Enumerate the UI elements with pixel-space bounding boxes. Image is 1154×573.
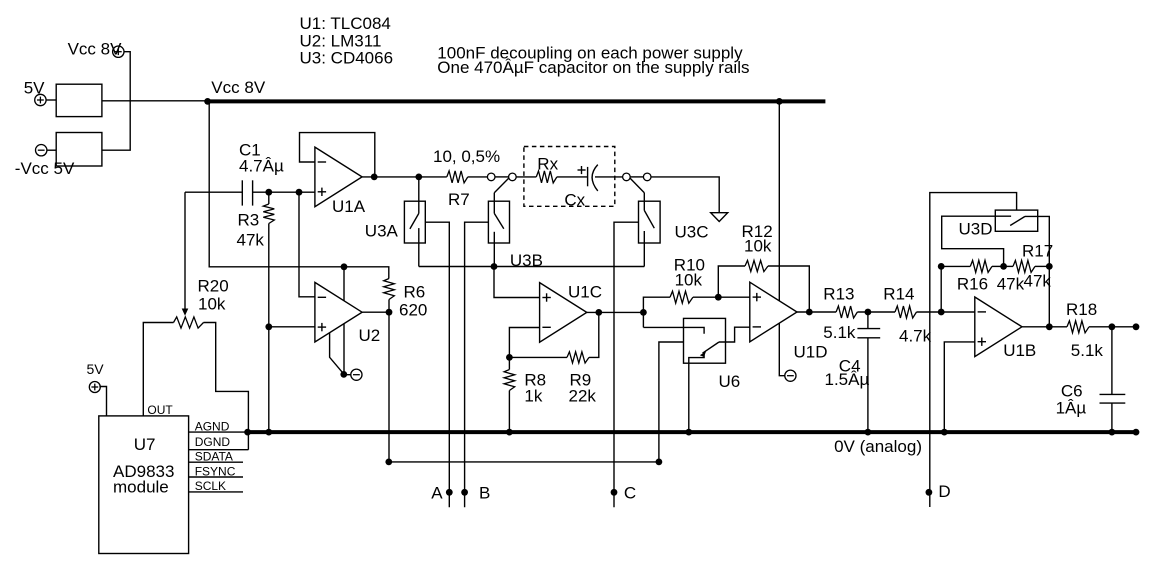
svg-text:module: module [113,478,169,497]
wire R13 to C4 [857,311,895,313]
svg-text:R3: R3 [238,211,260,230]
wire U1D output [797,311,836,313]
wire U1C+ input [494,267,540,298]
node U1B out [1046,323,1053,330]
wire [102,100,208,102]
node rail-left junction [204,98,211,105]
power label 5V (U7) [87,361,105,377]
svg-text:Vcc 8V: Vcc 8V [211,78,266,97]
wire R8 bottom [508,391,510,433]
wire R16 vertical [940,266,942,312]
analog switch U6 arm [700,342,719,357]
label R8 [524,371,546,390]
label C4 [839,357,861,376]
label R7 [448,190,470,209]
analog switch U3B symbol [494,193,504,267]
analog switch U3A symbol [410,177,419,267]
wire R9 right [589,312,599,357]
wire 5V to U7 [99,387,106,416]
svg-text:R18: R18 [1066,300,1097,319]
svg-text:10k: 10k [744,237,772,256]
wire R14 to U1B- [917,311,975,313]
label U3D [959,220,993,239]
label R14 value [899,327,932,346]
wire bus to U6 control [659,342,684,462]
wire Vcc to U2/R6 [209,101,389,278]
node R16 drop [938,309,945,316]
node U1A output [371,174,378,181]
analog switch U6 box [684,318,726,363]
svg-text:10, 0,5%: 10, 0,5% [433,147,500,166]
switch contact [623,173,631,181]
power symbol - (-Vcc) [36,145,47,156]
svg-text:U1A: U1A [332,197,366,216]
svg-text:R13: R13 [823,285,854,304]
svg-text:U1B: U1B [1003,341,1036,360]
label U3C [675,223,709,242]
wire U2 V- pin [343,324,345,375]
svg-text:5.1k: 5.1k [1071,341,1104,360]
analog switch U3A box [404,201,425,243]
svg-text:R14: R14 [883,285,914,304]
resistor R18 [1067,321,1089,333]
svg-text:AGND: AGND [195,419,230,433]
potentiometer R20 wiper wire [184,192,186,309]
wire U1A feedback [300,133,375,177]
label R3 value [237,231,265,250]
dc-dc converter module (5V to -Vcc) [56,133,102,167]
svg-text:R7: R7 [448,190,470,209]
wire R12 left [718,266,745,297]
wire U6 top contact [643,327,704,333]
label R9 [570,371,592,390]
svg-text:A: A [431,484,443,503]
power symbol - U1D [785,370,796,381]
power label 5V [24,78,45,97]
wire to Rx [516,176,536,178]
terminal 0V out [1133,429,1140,436]
resistor R8 [504,370,515,391]
svg-text:U1: TLC084: U1: TLC084 [300,14,391,33]
analog switch U3D box [995,210,1037,231]
label module [113,478,169,497]
label R18 value [1071,341,1104,360]
label R14 [883,285,914,304]
resistor R3 [263,204,274,224]
resistor R17 [1013,260,1035,272]
node R17 right [1046,263,1053,270]
node U2 sense tap [296,189,303,196]
label R10 [674,255,705,274]
svg-text:5V: 5V [87,361,105,377]
svg-text:OUT: OUT [147,403,173,417]
wire R8 top [508,357,510,369]
resistor R12 [745,260,768,271]
svg-text:4.7k: 4.7k [899,327,932,346]
label R12 [742,222,773,241]
wire U2- sense [299,192,315,297]
wire [46,99,56,101]
wire R9 left [509,356,567,358]
svg-text:SCLK: SCLK [195,479,226,493]
op-amp U1C [540,283,587,343]
wire R3 body [268,192,270,432]
pin SCLK [189,479,243,493]
wire U2 gnd pin [330,333,344,374]
wire between contacts [630,176,643,178]
wire U1B output [1022,326,1067,328]
resistor R6 [384,279,395,300]
note supply capacitor [437,58,749,77]
node R8 on rail [506,429,513,436]
capacitor Cx [588,165,598,191]
op-amp U1B [975,297,1022,357]
label C6 value [1056,399,1087,418]
op-amp U1D [750,282,797,342]
svg-text:U2: U2 [359,326,381,345]
label U1B [1003,341,1036,360]
wire U1D+ input [718,296,750,298]
svg-text:SDATA: SDATA [195,449,233,463]
wire U2 out to control bus [388,312,390,462]
wire U1C output [587,311,644,313]
label R7 tolerance [433,147,500,166]
node C4 on rail [865,429,872,436]
node C6 top [1109,323,1116,330]
control bus [389,461,659,463]
svg-text:U3C: U3C [675,223,709,242]
label R20 value [198,295,226,314]
calibration dashed box [524,147,615,207]
label C6 [1061,382,1083,401]
svg-text:R17: R17 [1022,242,1053,261]
node U1C out to R10/U6 [640,309,647,316]
wire U3D right [1025,216,1049,326]
wire U3B control [465,222,489,507]
label U1D [794,343,828,362]
svg-text:10k: 10k [675,271,703,290]
power symbol - U2 [351,369,362,380]
note U1 type [300,14,391,33]
label U2 [359,326,381,345]
capacitor Cx polarity + [578,166,586,174]
capacitor C4 [857,329,880,338]
wire U3A control [425,222,449,507]
svg-text:47k: 47k [237,231,265,250]
op-amp U1A [315,147,362,207]
ground symbol [711,213,728,222]
node U6 on rail [685,429,692,436]
wire U1D V- pin [779,323,784,376]
node R3 on rail [265,429,272,436]
resistor R14 [895,306,917,318]
svg-text:U1D: U1D [794,343,828,362]
wire U3C control [614,222,639,507]
svg-text:R16: R16 [957,275,988,294]
wire between contacts [495,176,509,178]
wire Rx to Cx [557,176,588,178]
resistor R7 [447,171,468,183]
node U2 V+ tap [341,263,348,270]
label U6 [719,372,741,391]
svg-text:-Vcc 5V: -Vcc 5V [15,159,75,178]
label R18 [1066,300,1097,319]
wire U2 V+ pin [343,267,345,301]
power symbol + U7 [89,382,100,393]
resistor R9 [567,352,589,363]
wire R6 bottom [388,300,390,313]
potentiometer R20 wiper arrow [182,309,189,316]
power label -Vcc 5V [15,159,75,178]
node A [431,484,452,503]
svg-text:5.1k: 5.1k [823,323,856,342]
svg-text:U7: U7 [134,435,156,454]
node U2 out / R6 [386,309,393,316]
svg-text:U3A: U3A [365,222,399,241]
analog switch U3C box [639,201,661,243]
note decoupling [437,44,743,63]
wire R7 to contact [468,176,488,178]
switch U3C arm [630,178,644,193]
svg-text:D: D [938,482,950,501]
label R17 value [1024,272,1052,291]
label 0V analog [834,437,922,456]
note U2 type [300,31,382,50]
label R9 value [569,387,597,406]
switch contact [487,173,495,181]
svg-text:R20: R20 [198,277,229,296]
node U1C out [595,309,602,316]
node AGND on rail [244,429,251,436]
pin SDATA [189,449,243,463]
node R16 left [938,263,945,270]
potentiometer R20 [174,317,204,328]
svg-text:620: 620 [399,301,427,320]
label R6 [404,283,426,302]
node R8/R9 junction [506,354,513,361]
label R20 [198,277,229,296]
power symbol + 5V [35,94,46,105]
svg-text:B: B [479,484,490,503]
wire [47,149,56,151]
wire R10 right [693,296,718,298]
svg-text:U6: U6 [719,372,741,391]
wire C1 to U1A+ [253,191,315,193]
resistor R16 [970,260,992,272]
wire R18 right [1089,326,1136,328]
op-amp U2 [315,282,362,342]
svg-text:U2: LM311: U2: LM311 [300,31,382,50]
pin label OUT [147,403,173,417]
node bus left [385,459,392,466]
wire U1D V+ pin [778,101,780,301]
capacitor C1 [242,180,252,205]
node C4 top [865,309,872,316]
svg-text:1.5Âµ: 1.5Âµ [825,370,870,389]
svg-text:U1C: U1C [568,282,602,301]
label R17 [1022,242,1053,261]
node U3A tap [415,174,422,181]
resistor R13 [836,306,857,318]
label R12 value [744,237,772,256]
rail label Vcc 8V [211,78,266,97]
label R13 [823,285,854,304]
svg-text:22k: 22k [569,387,597,406]
wire Cx out [595,176,623,178]
label U1C [568,282,602,301]
label R6 value [399,301,427,320]
label R10 value [675,271,703,290]
svg-text:One 470ÂµF capacitor on the su: One 470ÂµF capacitor on the supply rails [437,58,749,77]
label C1 [239,141,261,160]
dc-dc converter module (5V to Vcc) [56,84,102,116]
label U1A [332,197,366,216]
svg-text:1Âµ: 1Âµ [1056,399,1087,418]
power symbol + Vcc 8V [113,46,124,57]
node R20 wire tap [265,323,272,330]
wire R10 branch [643,297,670,327]
svg-text:FSYNC: FSYNC [195,464,236,478]
node R10/R12/U1D+ [715,294,722,301]
svg-text:47k: 47k [1024,272,1052,291]
note U3 type [300,49,394,68]
svg-text:10k: 10k [198,295,226,314]
node D [926,482,951,501]
analog switch U6 bottom contact [689,353,704,432]
node R3 tap [265,189,272,196]
analog switch U3D symbol [985,216,1025,225]
label R13 value [823,323,856,342]
resistor R10 [670,291,693,303]
svg-text:DGND: DGND [195,435,231,449]
svg-text:Cx: Cx [564,191,585,210]
wire U6 pole to U1D- [719,327,750,342]
svg-text:C: C [624,484,636,503]
node bus right [656,459,663,466]
wire U1A output [362,176,447,178]
node U1B+ on rail [941,429,948,436]
wire U1C- input [509,328,539,358]
wire to -Vcc symbol [344,374,351,376]
switch U3B arm [494,178,509,193]
wire R17 leads [1004,265,1050,267]
wire U2 output [362,311,389,313]
label U3A [365,222,399,241]
pin FSYNC [189,464,243,478]
pin DGND [189,435,249,450]
node U2 supply join [340,371,347,378]
wire node D loop [930,193,1017,507]
wire U1B+ input [944,342,975,432]
label C1 value [239,156,284,175]
node C [611,484,637,503]
wire R12 right [768,266,809,312]
analog switch U3C symbol [644,193,654,267]
wire R20 left to U7 OUT [143,323,173,416]
wire to ground [651,177,719,213]
label R3 [238,211,260,230]
node U1D out [806,309,813,316]
svg-text:1k: 1k [524,387,542,406]
wire R16 leads [941,265,1003,267]
label R8 value [524,387,542,406]
node B [461,484,490,503]
wire C1 input row [185,191,242,193]
analog switch U3B box [488,201,509,243]
node C6 on rail [1109,429,1116,436]
power label Vcc 8V [68,40,123,59]
wire R20 right to 0V [204,323,249,450]
terminal output [1133,323,1140,330]
wire C4 leads [867,312,869,432]
label C4 value [825,370,870,389]
wire [102,52,130,151]
svg-text:0V (analog): 0V (analog) [834,437,922,456]
module U7 box [99,416,189,554]
label R16 [957,275,988,294]
switch contact [643,173,651,181]
wire U2+ input [269,326,315,328]
0V rail [248,430,1136,434]
svg-text:U3: CD4066: U3: CD4066 [300,49,394,68]
label U7 [134,435,156,454]
label Cx [564,191,585,210]
node U3B/U1C+ junction [491,263,498,270]
capacitor C6 [1100,394,1126,403]
Vcc 8V rail [208,99,826,103]
svg-text:Rx: Rx [537,155,558,174]
pin AGND [189,419,248,433]
label AD9833 [113,462,174,481]
svg-text:U3D: U3D [959,220,993,239]
wire U3D left loop [942,216,1004,266]
node U1D supply tap [776,98,783,105]
node R16/R17 mid [1000,263,1007,270]
label U3B [510,251,543,270]
resistor Rx [536,171,557,183]
svg-text:47k: 47k [997,275,1025,294]
label Rx [537,155,558,174]
label R16 value [997,275,1025,294]
switch contact [509,173,517,181]
wire switch common [419,266,645,268]
wire C6 leads [1111,327,1113,432]
svg-text:R6: R6 [404,283,426,302]
svg-text:4.7Âµ: 4.7Âµ [239,156,284,175]
